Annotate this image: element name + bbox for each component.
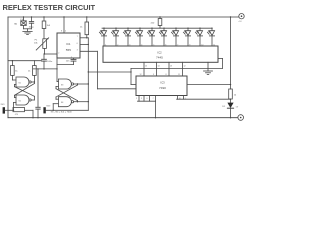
- LED D10: [195, 28, 202, 47]
- LED D5: [135, 28, 142, 47]
- wire 7445 gnd pin: [207, 62, 209, 71]
- nand N2: [16, 95, 29, 105]
- svg-text:N1 - N4 = IC4 = 7400: N1 - N4 = IC4 = 7400: [51, 111, 73, 113]
- wire: [23, 25, 25, 28]
- svg-text:IC2: IC2: [158, 50, 163, 54]
- svg-text:15: 15: [145, 65, 147, 67]
- LED D7: [159, 28, 166, 47]
- svg-text:3: 3: [77, 50, 78, 52]
- pin 8 wire: [63, 17, 65, 33]
- ground: [23, 30, 32, 32]
- wire latch2 to decoder: [88, 71, 131, 73]
- svg-text:N1: N1: [19, 82, 21, 84]
- wire 7445 D input link: [218, 58, 223, 60]
- svg-text:2: 2: [58, 52, 59, 54]
- wire cross couple latch1: [31, 81, 34, 83]
- wire pin 6: [80, 43, 88, 45]
- resistor R2: [86, 17, 88, 22]
- svg-text:100µ: 100µ: [29, 27, 35, 29]
- wire 7445-7490 pins: [143, 62, 145, 76]
- wire left supply: [7, 17, 9, 118]
- LED D4: [123, 28, 130, 47]
- IC2 7445: [103, 46, 218, 62]
- wire right branch: [230, 17, 232, 89]
- wire net vertical to latch area: [87, 38, 89, 111]
- resistor R4 pullup: [11, 61, 13, 66]
- wire join: [24, 28, 32, 30]
- terminal +5V: [239, 14, 244, 19]
- IC3 7490: [136, 76, 187, 96]
- resistor R6: [13, 108, 25, 112]
- wire: [43, 29, 45, 39]
- svg-text:13: 13: [170, 65, 172, 67]
- resistor R3: [159, 17, 161, 19]
- svg-text:3: 3: [141, 98, 142, 100]
- timer IC1 555: [57, 33, 80, 58]
- svg-text:8Ω: 8Ω: [14, 24, 17, 26]
- LED D11: [207, 28, 214, 47]
- wire: [43, 61, 45, 69]
- svg-text:14: 14: [158, 65, 160, 67]
- junction dots on top rail: [43, 16, 44, 17]
- wire pin 7: [80, 37, 88, 39]
- capacitor C1: [43, 54, 45, 59]
- terminal 0V: [238, 115, 244, 121]
- nand N1: [16, 77, 29, 87]
- LED D6: [147, 28, 154, 47]
- resistor R7: [229, 89, 233, 99]
- nand N3: [58, 79, 71, 89]
- wire ground link: [33, 68, 57, 70]
- resistor R1: [43, 17, 45, 21]
- wire C3 branch: [37, 69, 39, 107]
- capacitor C2: [73, 58, 75, 59]
- resistor R5 pullup: [33, 61, 35, 66]
- svg-text:470: 470: [15, 114, 18, 116]
- capacitor C3: [36, 106, 40, 108]
- svg-text:7445: 7445: [156, 56, 163, 60]
- LED D3: [111, 28, 118, 47]
- wire pin 1: [73, 61, 75, 64]
- svg-text:8: 8: [61, 31, 62, 33]
- svg-text:7490: 7490: [159, 86, 166, 90]
- wire LED rail: [102, 27, 212, 29]
- capacitor C4: [31, 17, 33, 22]
- wire pin 3 out: [80, 50, 97, 52]
- potentiometer P1: [43, 39, 47, 49]
- svg-text:N3: N3: [61, 84, 63, 86]
- wire 0V bottom rail: [8, 117, 238, 119]
- svg-text:SW2: SW2: [46, 106, 50, 108]
- svg-text:2: 2: [136, 98, 137, 100]
- node junction: [44, 53, 45, 54]
- wire +5V top rail: [8, 16, 239, 18]
- svg-text:REFLEX TESTER CIRCUIT: REFLEX TESTER CIRCUIT: [3, 3, 96, 12]
- svg-text:7: 7: [153, 98, 154, 100]
- svg-text:4: 4: [65, 31, 66, 33]
- wire pullup feed: [8, 60, 42, 62]
- wire 555 out to 7490 clock: [96, 51, 98, 89]
- svg-text:N2: N2: [19, 100, 21, 102]
- LED D2: [99, 28, 106, 47]
- LED D9: [183, 28, 190, 47]
- wire: [44, 48, 46, 54]
- wire cross couple latch2: [74, 83, 89, 85]
- ground: [204, 70, 213, 72]
- LEDs D2-D11: [99, 28, 214, 47]
- svg-text:IC3: IC3: [161, 80, 166, 84]
- svg-text:6: 6: [147, 98, 148, 100]
- wire to IC1: [44, 53, 57, 55]
- svg-text:N4: N4: [61, 102, 63, 104]
- svg-text:6: 6: [77, 43, 78, 45]
- svg-text:12: 12: [184, 65, 186, 67]
- svg-text:SW1: SW1: [1, 104, 5, 106]
- svg-text:1: 1: [71, 56, 72, 58]
- wire: [32, 110, 34, 117]
- nand N4: [58, 97, 71, 107]
- svg-text:100n: 100n: [47, 61, 53, 63]
- LED D8: [171, 28, 178, 47]
- svg-text:555: 555: [66, 48, 71, 52]
- svg-text:7: 7: [77, 36, 78, 38]
- svg-text:IC1: IC1: [66, 42, 71, 46]
- wire 7490 bottom pins: [138, 96, 140, 102]
- wire 7490 out to supply branch: [187, 84, 231, 86]
